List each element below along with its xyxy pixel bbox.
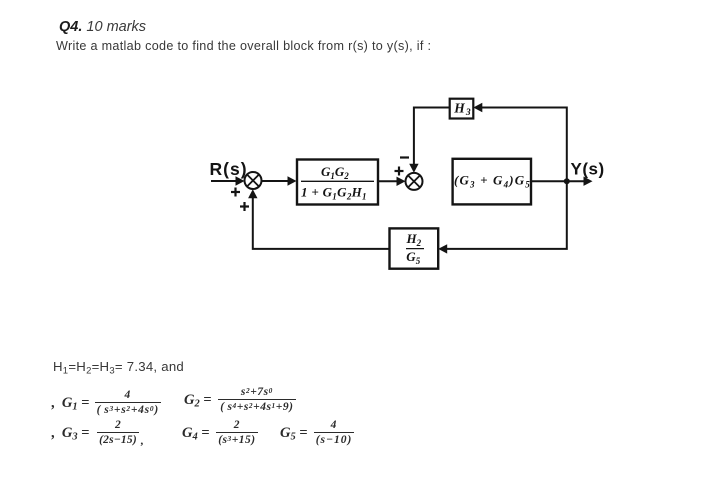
wire H3 down into junction 2 <box>414 108 450 167</box>
formula G4 <box>182 420 258 447</box>
arrowhead into junction2 from left <box>397 177 406 186</box>
question text <box>56 39 431 53</box>
block H2/G5 <box>390 228 439 268</box>
formula G1 <box>51 390 161 417</box>
summing junction 1 <box>245 172 262 189</box>
arrowhead into block G1G2 <box>288 176 297 185</box>
plus sign below junction1 <box>240 202 249 211</box>
summing junction 2 <box>406 173 423 190</box>
fraction bar in block H2/G5 <box>406 248 424 250</box>
text H1=H2=H3= 7.34, and <box>53 359 184 376</box>
block G1G2/(1+G1G2H1) <box>297 160 378 205</box>
arrowhead into junction1 from below <box>248 189 257 198</box>
arrowhead into junction1 <box>236 176 245 185</box>
minus sign at junction2 <box>400 156 409 158</box>
formula G5 <box>280 420 354 447</box>
wire H2/G5 to junction1 from below <box>253 196 390 249</box>
arrowhead into H2/G5 <box>438 244 447 253</box>
plus sign at junction2 <box>395 167 404 176</box>
svg-text:(G3 + G4)G5: (G3 + G4)G5 <box>454 173 531 190</box>
wire output node down to H2/G5 <box>445 181 567 249</box>
arrowhead into junction2 from top <box>409 164 418 173</box>
wire input R(s) to summing junction 1 <box>211 180 238 182</box>
block H3 <box>450 99 474 119</box>
fraction bar in block G1G2 <box>301 180 374 182</box>
wire junction1 to block G1G2 <box>262 180 291 182</box>
formula G3 <box>51 420 144 447</box>
svg-text:Y(s): Y(s) <box>571 159 605 178</box>
wire block G1G2 to junction2 <box>379 180 400 182</box>
heading Q4 10 marks <box>59 19 146 35</box>
arrowhead output Y(s) <box>584 177 593 186</box>
arrowhead into H3 <box>473 103 482 112</box>
wire block2 to output Y(s) <box>531 180 585 182</box>
wire output node to H3 input <box>480 108 567 182</box>
formula G2 <box>184 387 296 414</box>
svg-text:R(s): R(s) <box>210 159 248 179</box>
plus sign left of junction1 <box>231 188 240 197</box>
output node dot <box>564 178 570 184</box>
block (G3+G4)G5 <box>453 159 531 205</box>
